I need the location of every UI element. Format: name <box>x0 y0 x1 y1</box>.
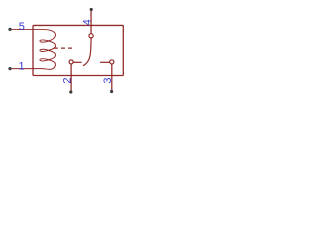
svg-text:1: 1 <box>18 60 24 72</box>
svg-text:3: 3 <box>102 77 114 83</box>
svg-text:4: 4 <box>82 19 94 25</box>
svg-text:2: 2 <box>62 78 74 84</box>
svg-text:5: 5 <box>19 21 25 33</box>
